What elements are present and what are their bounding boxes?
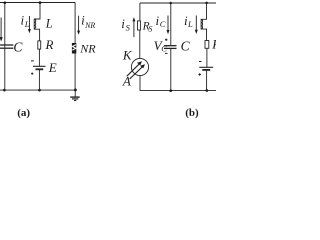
svg-text:E: E	[48, 60, 57, 75]
svg-text:C: C	[13, 40, 23, 55]
svg-text:i: i	[121, 16, 125, 31]
svg-text:(a): (a)	[17, 107, 30, 119]
svg-text:L: L	[45, 16, 53, 30]
svg-text:S: S	[126, 22, 131, 32]
svg-text:C: C	[161, 44, 167, 54]
svg-text:R: R	[45, 37, 54, 52]
svg-text:NR: NR	[79, 42, 96, 56]
svg-text:S: S	[148, 24, 152, 33]
svg-text:NR: NR	[84, 21, 95, 30]
svg-text:A: A	[122, 74, 131, 89]
svg-text:R: R	[211, 37, 216, 52]
svg-text:C: C	[181, 39, 191, 54]
svg-text:(b): (b)	[185, 107, 199, 119]
svg-text:C: C	[160, 19, 166, 29]
svg-text:K: K	[122, 47, 133, 62]
svg-text:L: L	[187, 19, 193, 29]
svg-text:L: L	[24, 19, 30, 29]
